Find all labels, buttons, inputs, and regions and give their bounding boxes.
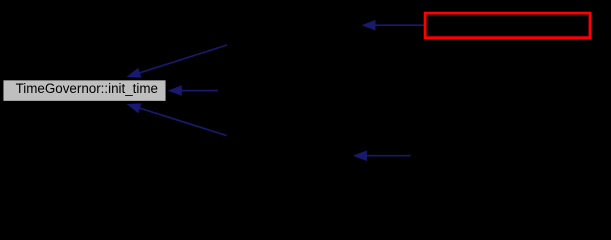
edge D: red truncated node -> upper caller (hidden) <box>362 20 425 31</box>
edge C: caller (lower, hidden) -> init_time <box>127 103 227 135</box>
edge B: caller (middle, hidden) -> init_time <box>168 85 218 96</box>
svg-text:TimeGovernor::init_time: TimeGovernor::init_time <box>16 81 158 96</box>
node: truncated caller (red border, text invisible on transparent bg) <box>425 13 590 38</box>
edge A: caller (upper, hidden) -> init_time <box>127 45 228 78</box>
node: TimeGovernor::init_time (current function, grey) <box>3 80 167 102</box>
edge E: caller (bottom right, hidden) -> lower caller (hidden) <box>353 150 411 161</box>
